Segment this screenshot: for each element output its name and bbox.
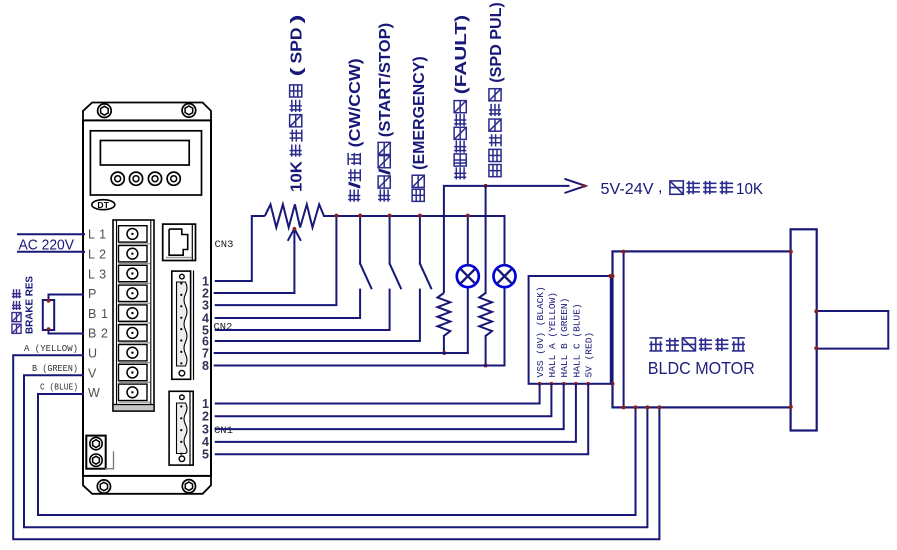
driver bottom-left screw: [97, 480, 110, 493]
driver top-right screw: [182, 104, 196, 118]
svg-text:5V (RED): 5V (RED): [584, 332, 595, 378]
wire hall VSS (0V) (BLACK) to CN1: [215, 384, 540, 404]
node shaft top: [814, 309, 818, 313]
driver body outline: [83, 120, 211, 476]
svg-text:): ): [289, 15, 306, 24]
terminal cell L3: [119, 265, 148, 281]
node hall box top right: [608, 274, 612, 278]
DT logo: [92, 200, 115, 210]
svg-text:U: U: [88, 347, 98, 361]
CN1 pin 5 contact dot: [180, 453, 182, 455]
wire V phase (green): [24, 375, 647, 527]
svg-text:L 2: L 2: [88, 248, 107, 262]
svg-text:C (BLUE): C (BLUE): [40, 382, 78, 393]
hall label HALL A (YELLOW): [547, 292, 558, 378]
wire AC L2: [18, 251, 84, 253]
svg-text:B 2: B 2: [88, 327, 109, 341]
motor front flange line: [623, 251, 625, 407]
lamp SPD PUL: [494, 265, 516, 287]
svg-text:BLDC MOTOR: BLDC MOTOR: [648, 358, 755, 378]
svg-text:(EMERGENCY): (EMERGENCY): [411, 56, 428, 174]
svg-text:AC 220V: AC 220V: [19, 237, 75, 253]
motor body: [613, 251, 791, 407]
driver bottom-right screw: [182, 480, 195, 493]
driver bottom mounting bracket: [83, 476, 211, 494]
wire hall HALL A (YELLOW) to CN1: [215, 384, 552, 417]
node motor left hall bottom: [611, 382, 615, 386]
svg-text:VSS (0V) (BLACK): VSS (0V) (BLACK): [535, 286, 546, 377]
hall label HALL B (GREEN): [559, 298, 570, 378]
svg-text:B (GREEN): B (GREEN): [32, 363, 78, 374]
svg-text:P: P: [88, 287, 97, 301]
wire brake resistor to B2: [49, 330, 85, 334]
svg-text:V: V: [88, 366, 97, 380]
label CW/CCW: [347, 58, 364, 201]
node motor bottom corner: [622, 405, 626, 409]
svg-text:10K: 10K: [736, 181, 763, 198]
wire hall HALL C (BLUE) to CN1: [215, 384, 576, 442]
label FAULT output: [453, 15, 470, 179]
svg-text:3: 3: [202, 298, 209, 312]
label BRAKE RES (rotated): [12, 289, 21, 333]
wire hall HALL B (GREEN) to CN1: [215, 384, 564, 429]
svg-text:HALL A (YELLOW): HALL A (YELLOW): [547, 292, 558, 378]
bottom screw box: [86, 436, 105, 469]
node motor bottom W: [634, 405, 638, 409]
bottom box screw 1: [90, 437, 102, 449]
terminal strip outline: [113, 220, 154, 411]
node wiper tip: [293, 227, 297, 231]
resistor R2 pull-up 10K: [485, 186, 487, 293]
lamp FAULT top lead: [467, 216, 469, 265]
label START/STOP: [377, 23, 394, 202]
wire P to brake resistor: [49, 295, 85, 301]
node motor top-left: [622, 250, 626, 254]
CN1 pin 2 contact dot: [180, 417, 182, 419]
node shaft bottom: [814, 346, 818, 350]
driver top mounting bracket: [83, 103, 211, 121]
svg-text:(CW/CCW): (CW/CCW): [347, 58, 364, 152]
svg-text:CN2: CN2: [214, 322, 233, 334]
node motor top-right: [789, 250, 793, 254]
wire CN2 pin8 to R2/lamp2: [215, 365, 505, 367]
node brake resistor bottom: [47, 327, 51, 331]
svg-text:,: ,: [658, 179, 662, 196]
svg-text:B 1: B 1: [88, 307, 109, 321]
svg-text:HALL B (GREEN): HALL B (GREEN): [559, 298, 570, 378]
svg-text:CN1: CN1: [214, 425, 233, 437]
node R1 bottom: [442, 351, 446, 355]
switch S1 CW/CCW: [359, 216, 361, 264]
svg-text:(SPD PUL): (SPD PUL): [488, 2, 505, 87]
svg-text:L 1: L 1: [88, 228, 107, 242]
lamp SPD PUL top lead (bus right end): [504, 216, 506, 265]
wire hall 5V (RED) to CN1: [215, 384, 589, 454]
node pull-up R2 tap: [484, 184, 488, 188]
switch S2 START/STOP: [389, 216, 391, 264]
node hall pin: [538, 382, 542, 386]
CN2 connector body: [172, 271, 191, 379]
svg-text:8: 8: [202, 359, 209, 373]
CN2 pin 6 contact dot: [180, 339, 182, 341]
hall label 5V (RED): [584, 332, 595, 378]
brake resistor: [43, 300, 54, 330]
node hall pin: [574, 382, 578, 386]
svg-text:HALL C (BLUE): HALL C (BLUE): [571, 303, 582, 377]
driver top-left screw: [98, 104, 112, 118]
lamp FAULT bottom lead: [467, 287, 469, 353]
node brake resistor top: [47, 299, 51, 303]
terminal cell U: [119, 345, 148, 361]
CN2 pin 7 contact dot: [180, 351, 182, 353]
potentiometer R 10K zigzag: [265, 204, 324, 227]
wire CN2 pin1 to potentiometer: [215, 216, 265, 281]
wire CN2 pin2 to wiper: [215, 292, 295, 294]
button 1: [111, 172, 124, 185]
terminal cell V: [119, 364, 148, 380]
label 10K pot speed (SPD): [289, 15, 306, 193]
lamp SPD PUL bottom lead: [504, 287, 506, 365]
LCD window: [100, 141, 189, 166]
CN2 pin 3 contact dot: [180, 305, 182, 307]
terminal cell B1: [119, 305, 148, 321]
display panel: [90, 131, 201, 195]
node bus S1: [358, 214, 362, 218]
node motor bottom V: [645, 405, 649, 409]
potentiometer wiper arrow: [293, 231, 295, 294]
CN1 connector body: [169, 391, 193, 465]
label EMERGENCY: [411, 56, 428, 201]
CN2 pin 2 contact dot: [180, 294, 182, 296]
svg-text:5: 5: [202, 448, 209, 462]
node bus pin3: [334, 214, 338, 218]
node motor bottom U: [657, 405, 661, 409]
CN3 RJ45 connector: [163, 224, 196, 260]
node bus S3: [418, 214, 422, 218]
wire CN2 pin7 to R1/lamp1: [215, 352, 468, 354]
wire AC L1: [18, 233, 84, 235]
wire U phase (yellow): [13, 355, 659, 539]
svg-text:W: W: [88, 386, 100, 400]
wire W phase (blue): [38, 394, 636, 515]
svg-text:CN3: CN3: [215, 239, 234, 251]
motor rear flange: [791, 229, 817, 430]
arrow head 5V-24V: [565, 179, 586, 193]
hall sensor box: [529, 276, 611, 384]
node bus S2: [388, 214, 392, 218]
svg-text:5V-24V: 5V-24V: [601, 181, 654, 198]
node hall pin: [550, 382, 554, 386]
terminal cell P: [119, 285, 148, 301]
svg-text:(FAULT): (FAULT): [453, 15, 470, 100]
terminal cell W: [119, 384, 148, 400]
CN2 pin 5 contact dot: [180, 328, 182, 330]
hall label VSS (0V) (BLACK): [535, 286, 546, 377]
wire CN2 pin3 to bus: [215, 216, 337, 305]
lamp FAULT: [457, 265, 479, 287]
bottom box screw 2: [90, 454, 102, 466]
node R2 bottom: [484, 364, 488, 368]
wire pot to bus: [324, 215, 505, 217]
svg-text:(START/STOP): (START/STOP): [377, 23, 394, 142]
switch S3 EMERGENCY: [419, 216, 421, 264]
CN2 pin 1 contact dot: [180, 282, 182, 284]
hall label HALL C (BLUE): [571, 303, 582, 377]
label SPD PUL output: [488, 2, 505, 176]
CN1 pin 4 contact dot: [180, 441, 182, 443]
button 4: [167, 172, 180, 185]
CN2 pin 8 contact dot: [180, 362, 182, 364]
terminal cell L1: [119, 226, 148, 242]
CN1 pin 1 contact dot: [180, 405, 182, 407]
node hall pin: [586, 382, 590, 386]
node motor bottom-right: [789, 405, 793, 409]
node hall pin: [562, 382, 566, 386]
button 2: [129, 172, 142, 185]
motor shaft: [817, 311, 889, 349]
CN1 pin 3 contact dot: [180, 429, 182, 431]
terminal cell B2: [119, 325, 148, 341]
button 3: [148, 172, 161, 185]
pull-up bus 5V-24V: [444, 186, 570, 293]
svg-text:BRAKE RES: BRAKE RES: [24, 276, 36, 334]
resistor R1 pull-up 10K: [438, 293, 451, 336]
svg-text:L 3: L 3: [88, 267, 107, 281]
svg-text:DT: DT: [97, 200, 109, 210]
svg-text:A (YELLOW): A (YELLOW): [24, 343, 78, 354]
svg-text:/: /: [347, 180, 364, 189]
node motor left hall top: [611, 274, 615, 278]
node bus lamp1: [466, 214, 470, 218]
CN2 pin 4 contact dot: [180, 317, 182, 319]
svg-text:10K: 10K: [289, 160, 306, 192]
terminal strip base: [113, 405, 154, 412]
svg-text:SPD: SPD: [289, 28, 306, 64]
label motor CJK: [649, 337, 662, 339]
terminal cell L2: [119, 246, 148, 262]
svg-text:(: (: [289, 66, 306, 76]
